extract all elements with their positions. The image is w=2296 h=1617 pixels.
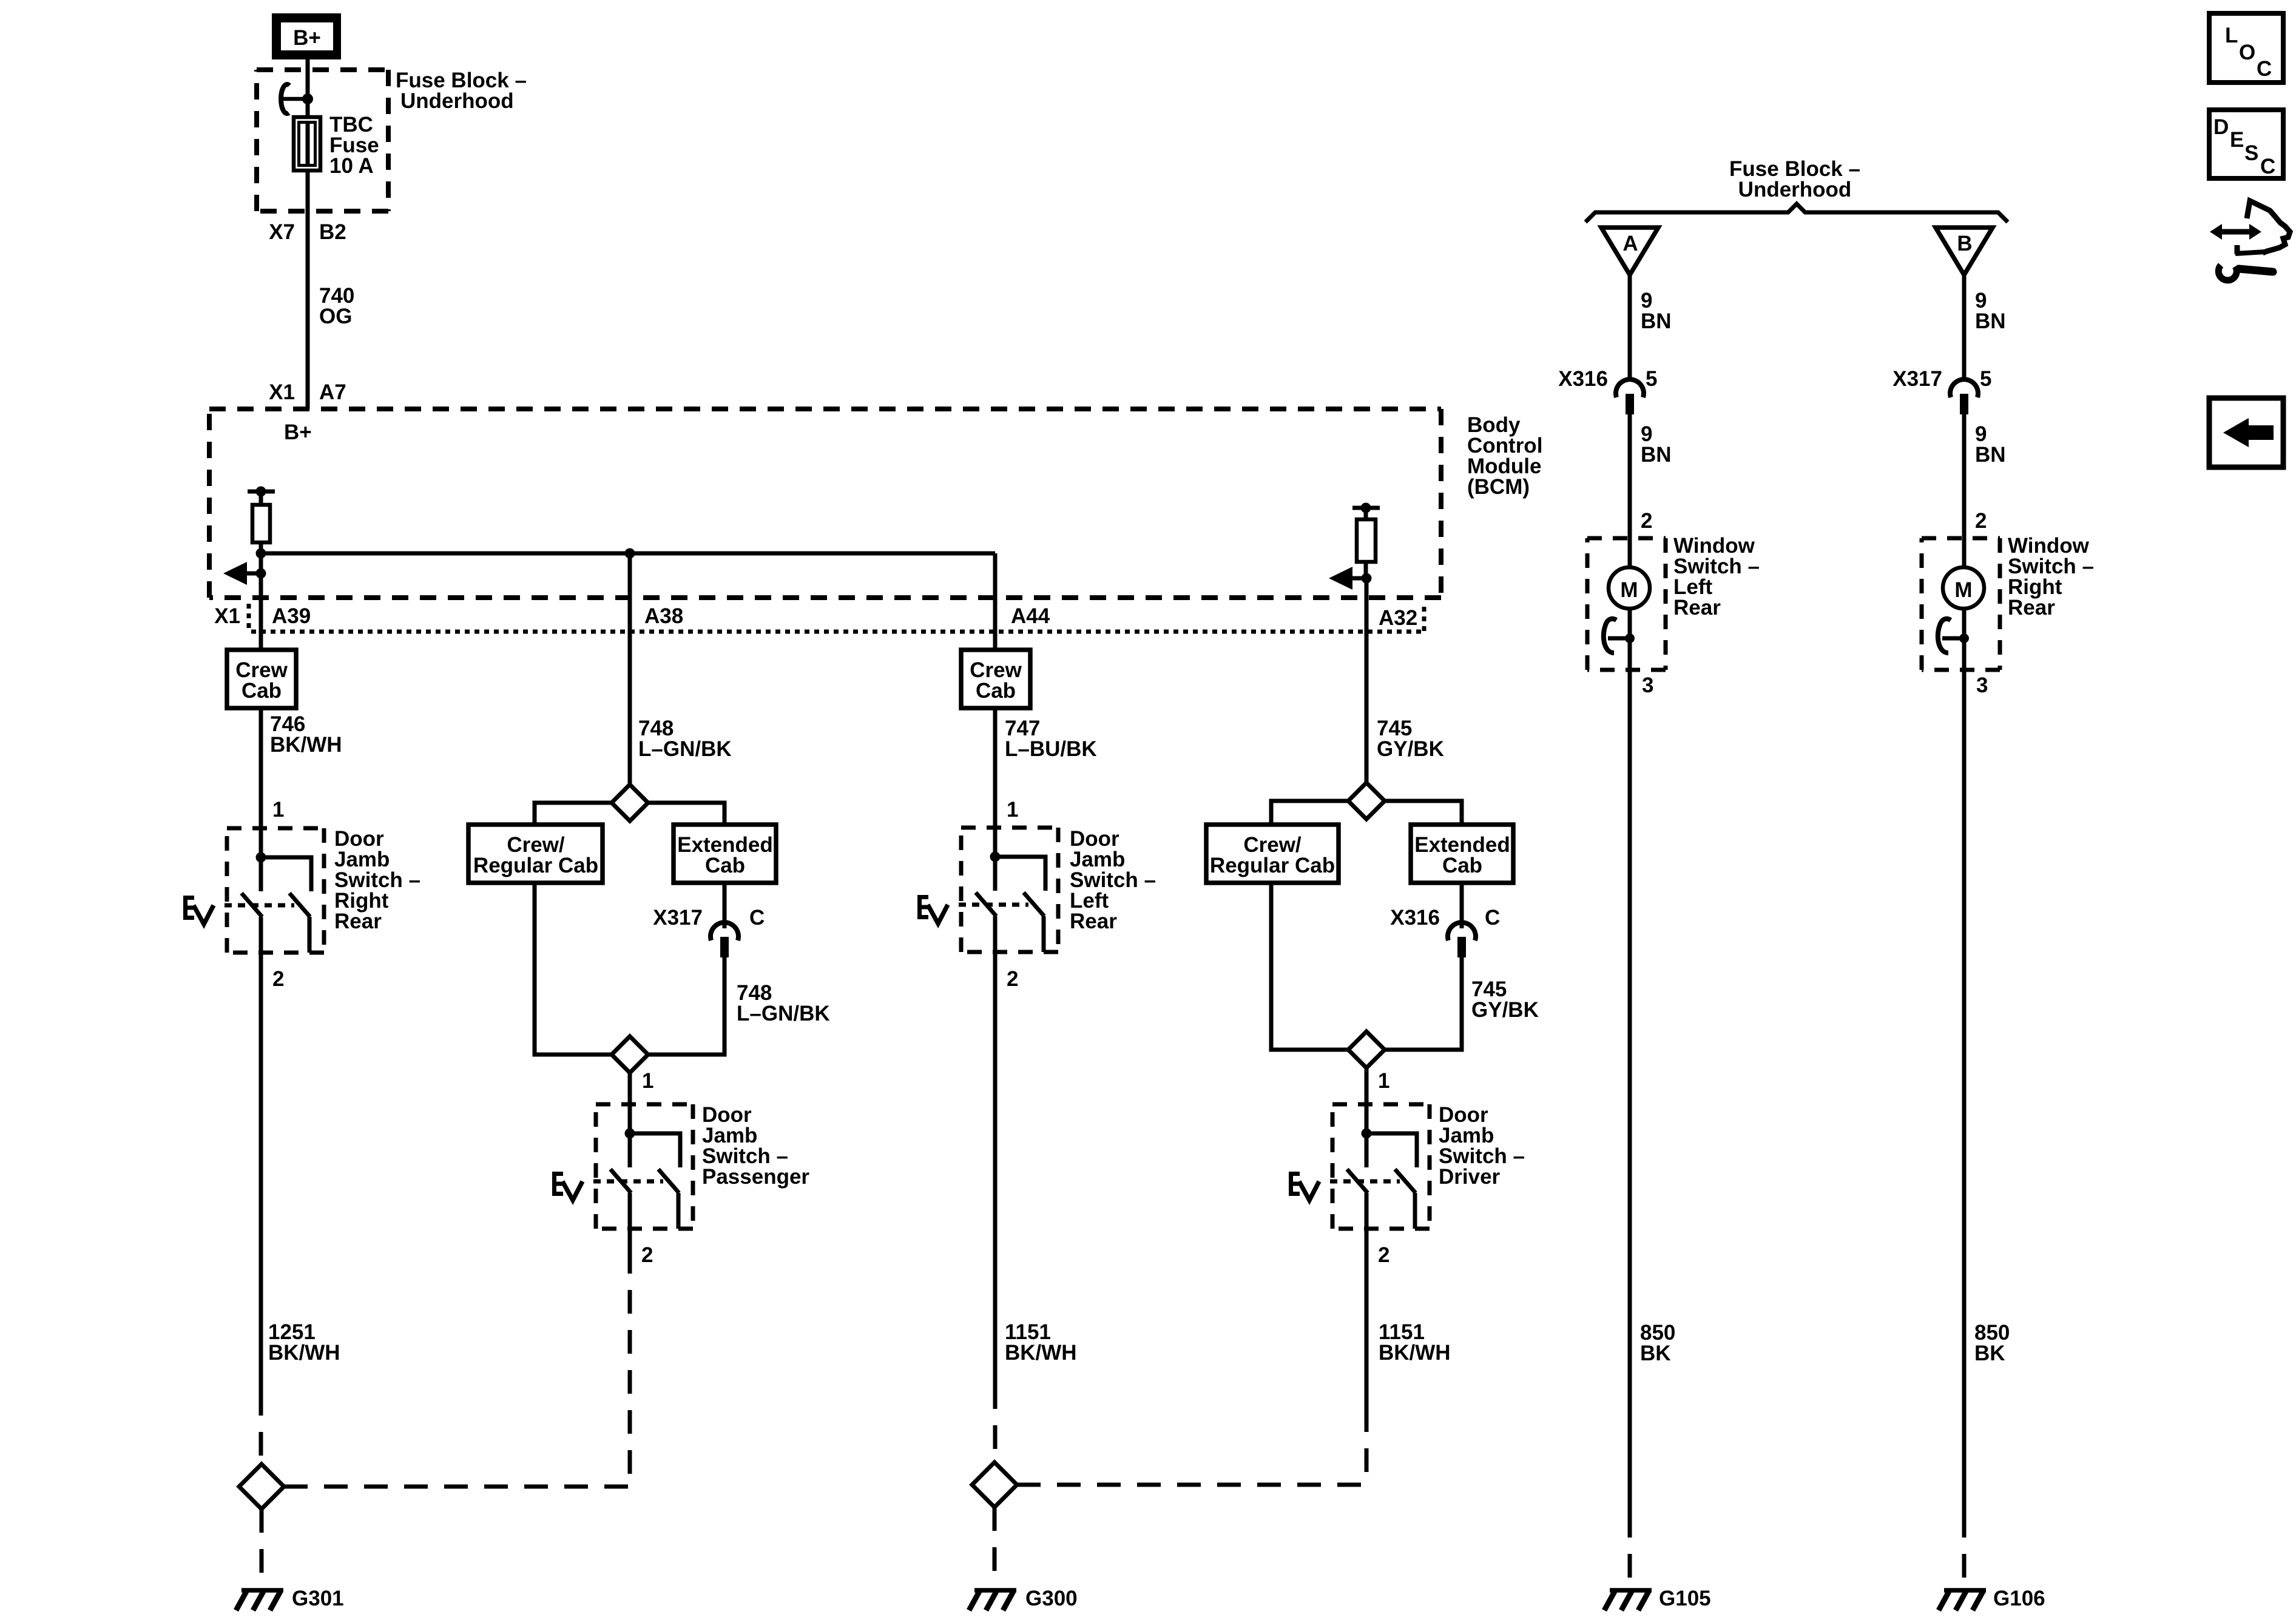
svg-text:A38: A38 (644, 604, 683, 628)
ground G105 (1604, 1590, 1652, 1610)
arrow continuation left A32 (1329, 567, 1366, 590)
label Door Jamb Switch Right Rear (334, 827, 420, 933)
ground G106 (1939, 1590, 1986, 1610)
svg-text:Cab: Cab (705, 854, 745, 877)
icon vehicle with arrow and wrench (2210, 201, 2290, 280)
BCM right driver element (1352, 503, 1380, 579)
wire 1251 BK/WH (259, 953, 263, 1392)
wire 747 L-BU/BK (993, 708, 998, 828)
svg-text:BN: BN (1975, 443, 2006, 467)
svg-text:Rear: Rear (2008, 596, 2055, 619)
wire A38 drop from bus (628, 553, 632, 785)
wire diamond to crew/regular leg (535, 803, 612, 825)
label Window Switch Right Rear (2008, 534, 2094, 619)
svg-text:1: 1 (272, 798, 284, 822)
svg-text:M: M (1954, 578, 1972, 602)
door jamb switch right rear (183, 828, 324, 953)
window switch right rear dashed box (1922, 538, 2000, 670)
wire to passenger jamb (628, 1073, 632, 1104)
junction node bus A38 (625, 549, 635, 559)
svg-text:L–GN/BK: L–GN/BK (737, 1002, 830, 1025)
wire diamond to extended leg right (1385, 801, 1462, 825)
splice diamond G300 path (972, 1462, 1017, 1507)
wire A44 drop from bus (993, 553, 998, 650)
ground G301 (236, 1590, 283, 1610)
junction node bus left (256, 549, 266, 559)
case clip hook left (1604, 619, 1635, 653)
svg-text:BK/WH: BK/WH (268, 1341, 340, 1365)
svg-text:X317: X317 (653, 906, 703, 930)
splice diamond A38 lower (612, 1036, 648, 1073)
Extended Cab option box A32 (1411, 825, 1513, 883)
BCM internal bus wire (261, 552, 995, 556)
svg-text:1: 1 (642, 1069, 653, 1093)
dashed wire passenger jamb to splice (628, 1250, 632, 1487)
svg-text:5: 5 (1646, 367, 1657, 391)
BCM X1 connector dotted row (249, 604, 1424, 632)
svg-text:C: C (2257, 57, 2272, 81)
svg-text:Cab: Cab (241, 679, 282, 703)
dashed wire to splice G300 (993, 1385, 998, 1462)
svg-text:Rear: Rear (1673, 596, 1721, 619)
wire A32 inside BCM (1365, 578, 1369, 783)
label Door Jamb Switch Left Rear (1070, 827, 1156, 933)
dashed wire splice to passenger jamb (284, 1485, 630, 1489)
svg-text:2: 2 (1975, 509, 1987, 533)
dashed wire to splice (259, 1392, 263, 1464)
svg-text:(BCM): (BCM) (1467, 475, 1530, 499)
svg-text:GY/BK: GY/BK (1377, 737, 1444, 761)
svg-text:Rear: Rear (334, 910, 382, 933)
svg-text:Driver: Driver (1439, 1165, 1501, 1189)
splice diamond A32 upper (1348, 783, 1385, 819)
Body Control Module BCM dashed box (209, 409, 1441, 598)
icon LOC box (2209, 13, 2283, 83)
svg-text:B2: B2 (319, 220, 346, 244)
svg-text:X7: X7 (269, 220, 295, 244)
svg-text:GY/BK: GY/BK (1471, 998, 1539, 1022)
svg-text:A32: A32 (1379, 606, 1417, 630)
svg-text:BN: BN (1975, 309, 2006, 333)
wire extended cab to connector right (1460, 883, 1464, 928)
svg-text:E: E (2230, 128, 2244, 152)
wire B+ to fuse (306, 59, 310, 99)
svg-text:BK: BK (1974, 1342, 2005, 1365)
svg-text:S: S (2244, 141, 2258, 165)
BCM left driver element (248, 487, 275, 650)
svg-text:D: D (2213, 115, 2229, 139)
icon DESC box (2209, 110, 2283, 178)
arrow continuation left A39 (223, 562, 261, 585)
window switch left rear dashed box (1587, 538, 1666, 670)
junction node arrow right (1362, 573, 1372, 584)
Crew/Regular Cab option box A32 (1206, 825, 1339, 883)
wire 745 GY/BK lower (1385, 957, 1462, 1050)
svg-text:X1: X1 (269, 380, 295, 404)
svg-text:5: 5 (1980, 367, 1991, 391)
wire 850 BK left (1628, 670, 1632, 1514)
wire extended cab to connector (723, 883, 727, 928)
label Door Jamb Switch Driver (1439, 1103, 1525, 1189)
wire 9 BN A lower (1628, 414, 1632, 538)
svg-text:B+: B+ (293, 26, 321, 50)
wire into motor (1628, 538, 1632, 569)
dashed wire to ground G105 (1628, 1514, 1632, 1585)
svg-text:BK/WH: BK/WH (270, 733, 342, 757)
svg-text:X317: X317 (1893, 367, 1942, 391)
svg-text:B+: B+ (284, 420, 312, 444)
dashed wire splice to driver jamb (1017, 1483, 1366, 1487)
wire 748 L-GN/BK lower (648, 957, 724, 1055)
case clip hook right (1938, 619, 1969, 653)
svg-text:1: 1 (1378, 1069, 1389, 1093)
dashed wire driver jamb to splice (1365, 1408, 1369, 1485)
door jamb switch driver (1289, 1104, 1430, 1229)
svg-text:G105: G105 (1659, 1587, 1711, 1610)
wire 9 BN B lower (1962, 414, 1967, 538)
svg-text:G106: G106 (1993, 1587, 2045, 1610)
Crew/Regular Cab option box A38 (468, 825, 603, 883)
wire into motor right (1962, 538, 1967, 569)
svg-text:G301: G301 (292, 1587, 344, 1610)
inline connector X317-5 (1950, 379, 1978, 414)
dashed wire to ground G106 (1962, 1514, 1967, 1585)
svg-text:X316: X316 (1558, 367, 1608, 391)
inline connector X316-5 (1616, 379, 1644, 414)
svg-text:2: 2 (641, 1243, 653, 1267)
svg-text:L–GN/BK: L–GN/BK (638, 737, 732, 761)
fuse output triangle A (1601, 228, 1658, 275)
dashed wire splice to ground G300 (993, 1507, 997, 1585)
svg-text:G300: G300 (1025, 1587, 1078, 1610)
svg-text:BK/WH: BK/WH (1005, 1341, 1077, 1365)
TBC fuse element 10A (294, 99, 320, 170)
motor M window left (1609, 567, 1650, 609)
wire 740 OG fuse to BCM (306, 170, 310, 409)
motor M window right (1943, 567, 1984, 609)
Extended Cab option box A38 (674, 825, 776, 883)
svg-text:Regular Cab: Regular Cab (1210, 854, 1335, 877)
svg-text:C: C (2260, 155, 2275, 178)
svg-text:X1: X1 (214, 604, 240, 628)
door jamb switch left rear (917, 828, 1058, 952)
svg-text:BN: BN (1641, 443, 1672, 467)
wire motor to hook node (1628, 609, 1632, 670)
svg-text:Rear: Rear (1070, 910, 1117, 933)
Crew Cab option box A44 (961, 650, 1030, 708)
Crew Cab option box A39 (227, 650, 296, 708)
svg-text:3: 3 (1642, 673, 1653, 697)
junction node arrow left (256, 569, 266, 579)
svg-text:2: 2 (1378, 1243, 1389, 1267)
svg-text:X316: X316 (1390, 906, 1440, 930)
fuse clip hook (281, 84, 303, 113)
svg-text:10 A: 10 A (329, 154, 374, 178)
wire 9 BN B upper (1962, 275, 1967, 378)
fuse block underhood dashed box (257, 70, 388, 211)
svg-text:Regular Cab: Regular Cab (473, 854, 598, 877)
wire 746 BK/WH (259, 708, 263, 828)
junction dot at fuse top (302, 93, 313, 104)
dashed wire splice to ground (260, 1509, 264, 1585)
svg-text:O: O (2239, 41, 2255, 64)
svg-text:OG: OG (319, 305, 352, 328)
wire crew/regular leg down (535, 883, 612, 1055)
wire motor to hook node right (1962, 609, 1967, 670)
svg-text:2: 2 (1641, 509, 1652, 533)
svg-text:2: 2 (1007, 967, 1018, 991)
inline connector X316-C (1448, 922, 1476, 957)
svg-text:Underhood: Underhood (400, 89, 514, 113)
splice diamond G301 path (239, 1464, 284, 1509)
ground G300 (969, 1590, 1016, 1610)
svg-text:BK/WH: BK/WH (1379, 1341, 1451, 1365)
svg-text:L: L (2225, 24, 2238, 47)
wire crew/regular leg right down (1271, 883, 1348, 1050)
wire 850 BK right (1962, 670, 1967, 1514)
wire diamond to crew/regular leg right (1271, 801, 1348, 825)
svg-text:BN: BN (1641, 309, 1672, 333)
svg-text:Cab: Cab (976, 679, 1016, 703)
svg-text:C: C (749, 906, 765, 930)
brace fuse block underhood (1585, 204, 2008, 222)
fuse output triangle B (1936, 228, 1993, 275)
svg-text:1: 1 (1007, 798, 1018, 822)
svg-text:C: C (1485, 906, 1500, 930)
svg-text:A44: A44 (1011, 604, 1050, 628)
battery positive B+ feed box (272, 13, 341, 59)
svg-text:BK: BK (1640, 1342, 1671, 1365)
svg-text:2: 2 (272, 967, 284, 991)
inline connector X317-C (711, 922, 738, 957)
splice diamond A32 lower (1348, 1031, 1385, 1068)
wire 1151 BK/WH right (1365, 1229, 1369, 1408)
svg-text:A39: A39 (272, 604, 311, 628)
svg-text:Cab: Cab (1442, 854, 1482, 877)
label Body Control Module (BCM) (1467, 413, 1542, 499)
wire diamond to extended leg (648, 803, 724, 825)
wire 1151 BK/WH left (993, 952, 998, 1385)
svg-text:A7: A7 (319, 380, 346, 404)
wire to driver jamb (1365, 1068, 1369, 1104)
svg-text:B: B (1957, 232, 1972, 255)
svg-text:Passenger: Passenger (702, 1165, 809, 1189)
svg-text:M: M (1620, 578, 1638, 602)
svg-text:Underhood: Underhood (1738, 178, 1852, 201)
svg-text:L–BU/BK: L–BU/BK (1005, 737, 1097, 761)
door jamb switch passenger (552, 1104, 693, 1229)
icon back arrow box (2209, 398, 2283, 467)
wire passenger jamb stub (628, 1229, 632, 1250)
svg-text:A: A (1622, 232, 1638, 255)
label Door Jamb Switch Passenger (702, 1103, 809, 1189)
svg-text:3: 3 (1976, 673, 1988, 697)
label Window Switch Left Rear (1673, 534, 1760, 619)
splice diamond A38 upper (612, 785, 648, 821)
wire 9 BN A upper (1628, 275, 1632, 378)
